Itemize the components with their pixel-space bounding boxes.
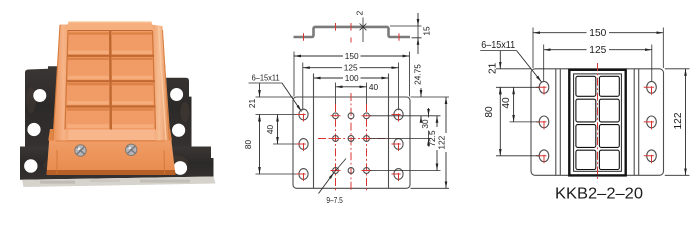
photo: left ear hole 3 (24, 159, 37, 172)
dimension 24.75 label (417, 61, 426, 88)
bend lines (314, 74, 389, 189)
dimension 125 right (544, 49, 652, 51)
svg-text:122: 122 (673, 112, 684, 129)
slotted hole R3 (392, 169, 404, 181)
photo: base lit band lower edge (56, 140, 165, 142)
photo: waffle grid row dividers (67, 55, 154, 57)
photo: rubber base block (47, 129, 176, 175)
photo: cell shading row2 (68, 58, 109, 60)
photo: right ear hole 1 (170, 88, 183, 101)
slotted hole L1 (297, 109, 309, 121)
slotted hole FR1 (644, 81, 657, 94)
dimension 122 right ext lines (665, 69, 690, 176)
slotted hole FL1 (536, 81, 549, 94)
photo: left side rail of buffer (53, 25, 72, 141)
svg-text:150: 150 (589, 28, 606, 39)
photo: base foot creases (56, 150, 58, 175)
photo: screw right (126, 144, 137, 155)
buffer cells row3 (576, 125, 596, 148)
slotted hole R2 (392, 139, 404, 151)
photo: bottom edge speckles (40, 181, 75, 184)
label 6-15x11 leader (249, 82, 283, 84)
profile: formed channel cross-section (294, 27, 411, 37)
dimension 100 (314, 77, 389, 79)
red row centerline (318, 138, 392, 140)
svg-text:40: 40 (501, 97, 512, 109)
dimension 40 (top) (336, 86, 367, 88)
dimension 122 right (685, 69, 687, 176)
photo: waffle face of buffer (65, 31, 156, 130)
dimension 150 (294, 55, 410, 57)
dimension 125 (303, 67, 399, 69)
dimension 21 right arrows (499, 51, 501, 69)
photo: steel base plate bottom band (20, 147, 214, 180)
svg-text:9–7.5: 9–7.5 (326, 195, 343, 204)
svg-text:80: 80 (243, 140, 253, 150)
dimension 150 extension lines (294, 52, 410, 97)
photo: waffle crease left (65, 31, 68, 130)
svg-text:KKB2–2–20: KKB2–2–20 (555, 185, 643, 202)
svg-text:150: 150 (345, 51, 359, 61)
photo: rubber base bottom shadow (47, 170, 176, 175)
dimension 125 extension lines (303, 63, 399, 111)
buffer block outer rect (569, 70, 625, 176)
slotted hole R1 (392, 109, 404, 121)
profile: red hole-position ticks (304, 23, 400, 43)
small hole red cross marks (331, 116, 372, 171)
dimension 15 extension lines (390, 26, 422, 38)
dimension 122 (middle) (445, 97, 447, 188)
photo: rust patches (181, 102, 190, 122)
plate outline (top view) (293, 97, 410, 188)
dimension 150 right ext lines (533, 28, 663, 69)
right extension lines (370, 97, 449, 188)
dimension 122 middle label (440, 133, 449, 152)
svg-text:30: 30 (420, 119, 430, 129)
photo: right rail step lines (159, 27, 167, 140)
slotted hole FL2 (536, 116, 549, 129)
buffer cells row2 (576, 99, 596, 122)
photo: waffle grid vertical divider (109, 31, 112, 130)
svg-text:80: 80 (484, 106, 495, 118)
photo: right ear hole 2 (172, 124, 185, 137)
photo: cell shading row1 (68, 32, 109, 34)
svg-text:15: 15 (422, 26, 432, 36)
dimension 40 (left) (277, 115, 279, 145)
red column centerlines (335, 104, 337, 192)
dimension 40 extension stubs (336, 83, 367, 112)
svg-text:6–15x11: 6–15x11 (481, 40, 515, 51)
dimension 150 right (533, 32, 663, 34)
photo: cell shading row4 (67, 108, 109, 110)
buffer cells row4 (576, 150, 596, 169)
slotted hole FR2 (644, 116, 657, 129)
plate outline (front view) (531, 69, 664, 176)
slotted hole L2 (297, 139, 309, 151)
svg-text:100: 100 (345, 73, 359, 83)
dimension 30 arrows (428, 108, 430, 116)
photo: rubber base top lit band (56, 129, 165, 140)
photo: waffle crease right (153, 31, 156, 130)
photo: steel plate bottom edge face (22, 177, 216, 188)
svg-text:21: 21 (247, 99, 257, 109)
photo: base side step right (162, 129, 172, 141)
photo: cell shading row3 (68, 83, 109, 85)
profile: centre mark with thickness leader (360, 18, 367, 43)
dimension 72.5 (436, 116, 438, 171)
red centerline of block (597, 63, 599, 182)
svg-text:21: 21 (488, 62, 499, 74)
bend lines front view (556, 69, 639, 176)
svg-text:24.75: 24.75 (413, 64, 423, 85)
svg-text:40: 40 (369, 82, 379, 92)
label 6-15x11 right leader (480, 50, 516, 52)
svg-text:2: 2 (354, 10, 364, 15)
photo: base side step left (48, 129, 58, 141)
left extension lines (256, 97, 300, 174)
dimension 80 (259, 115, 261, 175)
right drawing left ext lines (496, 69, 539, 156)
photo: right side rail of buffer (151, 25, 171, 141)
buffer cells row1 (576, 76, 596, 96)
dimension 125 right ext lines (544, 45, 652, 82)
dimension 40 right (513, 87, 515, 122)
small holes 3x3 (333, 113, 370, 174)
slotted hole FR3 (644, 150, 657, 163)
dimension 30 label (424, 118, 433, 131)
svg-text:122: 122 (436, 135, 446, 149)
label 9-7.5 leader (319, 173, 335, 194)
photo: left ear hole 1 (33, 89, 46, 102)
photo: buffer top face (67, 22, 154, 32)
photo: left rail edge line (53, 25, 60, 141)
dimension 24.75 arrows (420, 62, 422, 97)
buffer block inner rect (574, 74, 622, 171)
dimension 80 right (499, 87, 501, 156)
dimension 15 arrows (417, 13, 419, 26)
photo: screw left (75, 145, 86, 156)
svg-text:6–15x11: 6–15x11 (252, 73, 281, 82)
photo: left ear of steel plate (25, 66, 75, 146)
slotted hole FL3 (536, 150, 549, 163)
photo: right ear hole 3 (173, 161, 187, 175)
photo: left ear hole 2 (27, 123, 40, 136)
dimension 72.5 label (431, 127, 440, 150)
svg-text:40: 40 (265, 125, 275, 135)
svg-text:125: 125 (344, 63, 358, 73)
svg-text:125: 125 (589, 45, 606, 56)
dimension 21 arrows (259, 84, 261, 98)
photo: right ear of steel plate (160, 66, 192, 146)
slotted hole L3 (297, 169, 309, 181)
